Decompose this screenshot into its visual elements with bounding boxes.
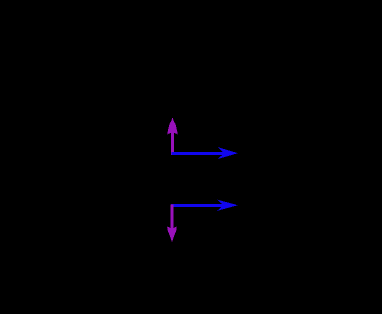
purple down vector arrow (pair 2) <box>167 205 177 243</box>
blue right vector arrow (pair 1) <box>172 147 238 159</box>
blue right vector arrow (pair 2) <box>171 200 238 211</box>
purple up vector arrow (pair 1) <box>167 117 178 155</box>
